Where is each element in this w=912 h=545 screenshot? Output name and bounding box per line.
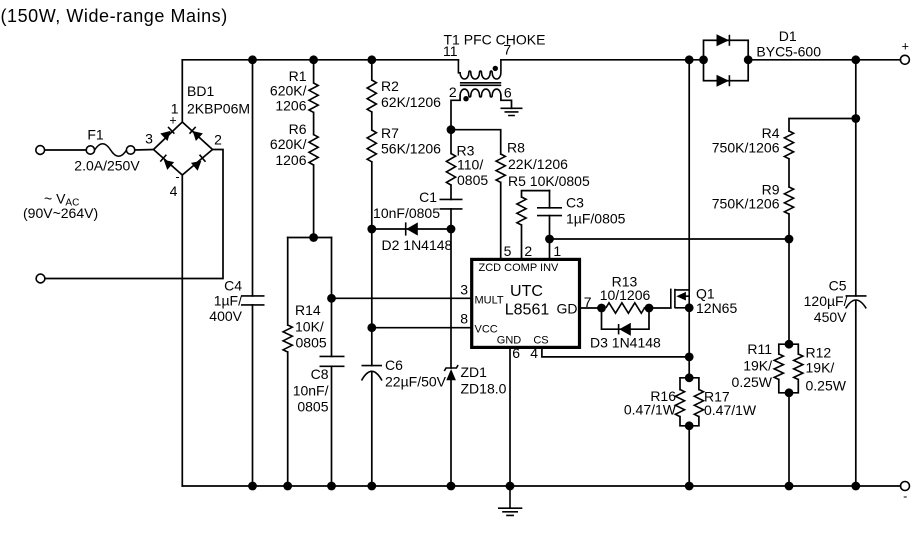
transformer T1 PFC choke	[451, 60, 512, 130]
wire C8 branch upper	[331, 238, 333, 357]
svg-text:T1 PFC CHOKE: T1 PFC CHOKE	[444, 32, 546, 48]
svg-text:0805: 0805	[296, 335, 327, 351]
svg-text:120µF/: 120µF/	[804, 293, 848, 309]
resistor R11	[774, 344, 789, 393]
svg-text:0805: 0805	[297, 399, 328, 415]
svg-text:1206: 1206	[275, 152, 306, 168]
junction dot CS tee	[685, 353, 694, 362]
wire lower AC input to bridge pin 2	[45, 150, 223, 279]
svg-text:R8: R8	[507, 140, 525, 156]
junction dot R11R12 bottom	[785, 388, 794, 397]
op-amp U1 UTC L8561 box	[472, 259, 580, 347]
svg-text:R11: R11	[747, 341, 772, 357]
svg-text:620K/: 620K/	[270, 136, 307, 152]
resistor R3	[446, 154, 455, 186]
svg-text:110/: 110/	[457, 157, 483, 173]
resistor R12	[789, 344, 803, 393]
capacitor C5 electrolytic	[846, 296, 867, 309]
wire R4 to R9	[788, 159, 790, 187]
capacitor C3	[537, 208, 562, 216]
terminal - output	[901, 482, 910, 491]
zener ZD1	[444, 365, 458, 380]
resistor R1	[309, 83, 318, 112]
junction dot R16R17 bottom	[685, 421, 694, 430]
wire INV feedback line	[550, 238, 790, 240]
svg-text:D1: D1	[779, 28, 797, 44]
terminal AC input lower	[36, 274, 45, 283]
svg-text:1206: 1206	[275, 98, 306, 114]
wire C6 bottom	[371, 372, 373, 487]
wire C1 to D2 node	[450, 209, 452, 229]
svg-text:R12: R12	[806, 345, 832, 361]
svg-text:C6: C6	[385, 357, 403, 373]
svg-text:10nF/: 10nF/	[293, 383, 329, 399]
wire R8 to ZCD pin5	[500, 182, 502, 258]
svg-text:R7: R7	[381, 125, 399, 141]
svg-text:C8: C8	[311, 366, 329, 382]
svg-text:-: -	[903, 490, 907, 504]
svg-text:-: -	[175, 170, 179, 184]
junction dot R13 right	[645, 304, 654, 313]
wire C3 to INV node	[549, 216, 551, 239]
junction dot bus C6	[367, 482, 376, 491]
junction dot MULT tee	[327, 294, 336, 303]
svg-text:62K/1206: 62K/1206	[381, 94, 441, 110]
resistor R14	[283, 325, 292, 352]
svg-text:F1: F1	[87, 127, 104, 143]
svg-text:+: +	[169, 114, 176, 128]
diode D2 1N4148	[372, 222, 451, 235]
svg-text:2.0A/250V: 2.0A/250V	[74, 158, 140, 174]
wire Q1 source down	[688, 308, 690, 378]
svg-text:+: +	[902, 40, 909, 54]
svg-text:2: 2	[524, 243, 532, 259]
svg-text:BD1: BD1	[187, 83, 214, 99]
wire C8 bottom	[331, 366, 333, 486]
wire upper AC input to fuse	[45, 149, 86, 151]
svg-text:ZD18.0: ZD18.0	[461, 381, 507, 397]
svg-text:19K/: 19K/	[743, 358, 772, 374]
transistor Q1 12N65	[671, 289, 689, 309]
junction dot R13 left	[597, 304, 606, 313]
wire R4 stub	[789, 119, 856, 132]
diode D3 1N4148	[602, 308, 650, 336]
wire fuse to bridge	[135, 149, 154, 152]
wire T1 node to R8	[451, 130, 501, 154]
svg-text:750K/1206: 750K/1206	[712, 139, 780, 155]
capacitor C4	[241, 296, 265, 305]
wire R2 top	[371, 60, 373, 80]
svg-text:620K/: 620K/	[270, 83, 307, 99]
wire tee R14/C8 branch	[288, 237, 332, 239]
svg-text:10nF/0805: 10nF/0805	[373, 205, 440, 221]
svg-text:MULT: MULT	[475, 295, 504, 307]
svg-text:56K/1206: 56K/1206	[381, 141, 441, 157]
resistor R7	[367, 130, 376, 162]
wire C3 top	[549, 191, 551, 208]
ground main	[498, 486, 522, 515]
svg-text:C4: C4	[224, 278, 242, 294]
resistor R17	[689, 378, 703, 426]
junction dot tee x313	[309, 233, 318, 242]
junction dot bus R11R12	[785, 482, 794, 491]
fuse F1	[86, 144, 135, 157]
svg-text:0.25W: 0.25W	[806, 378, 847, 394]
svg-text:R5 10K/0805: R5 10K/0805	[508, 173, 590, 189]
junction dot VCC tee	[367, 323, 376, 332]
svg-text:GD: GD	[557, 301, 578, 317]
terminal AC input upper	[36, 146, 45, 155]
junction dot D2 right	[447, 225, 456, 234]
junction dot T1 pin2 node	[447, 125, 456, 134]
wire R6 bottom to tee	[313, 165, 315, 238]
wire R1 to R6	[313, 112, 315, 134]
junction dot D1 right	[744, 55, 753, 64]
svg-text:0.47/1W: 0.47/1W	[704, 402, 757, 418]
svg-text:D3 1N4148: D3 1N4148	[590, 335, 661, 351]
svg-text:10/1206: 10/1206	[600, 287, 651, 303]
wire T1 pin2 node down to R3	[450, 130, 452, 154]
wire Q1 drain rail	[688, 60, 690, 290]
wire R5 to COMP pin2	[521, 225, 523, 259]
svg-text:3: 3	[460, 282, 468, 298]
junction dot R16R17 top	[685, 373, 694, 382]
svg-text:7: 7	[503, 42, 511, 58]
svg-text:UTC: UTC	[510, 283, 543, 300]
svg-text:5: 5	[504, 243, 512, 259]
wire VCC line	[372, 327, 471, 329]
svg-text:ZCD COMP INV: ZCD COMP INV	[479, 262, 560, 274]
svg-text:1µF/0805: 1µF/0805	[566, 211, 626, 227]
svg-text:12N65: 12N65	[696, 300, 737, 316]
svg-text:C1: C1	[419, 189, 437, 205]
svg-text:450V: 450V	[814, 309, 847, 325]
wire CS pin4	[542, 347, 689, 357]
terminal + output	[900, 55, 909, 64]
svg-text:11: 11	[443, 43, 458, 59]
capacitor C6 electrolytic	[362, 366, 383, 381]
svg-text:400V: 400V	[209, 308, 242, 324]
svg-text:6: 6	[512, 345, 520, 361]
svg-text:0.47/1W: 0.47/1W	[624, 402, 677, 418]
svg-text:BYC5-600: BYC5-600	[756, 43, 821, 59]
resistor R13	[606, 303, 645, 313]
junction dot top bus x313	[309, 55, 318, 64]
junction dot bus R14	[283, 482, 292, 491]
junction dot top bus x371	[367, 55, 376, 64]
junction dot bus C8	[327, 482, 336, 491]
svg-text:ZD1: ZD1	[461, 364, 488, 380]
svg-text:C5: C5	[829, 278, 847, 294]
svg-text:(90V~264V): (90V~264V)	[23, 205, 98, 221]
wire MULT line	[332, 297, 471, 299]
wire R9 bottom to INV node	[788, 214, 790, 344]
diode D1 BYC5-600	[704, 34, 749, 86]
junction dot bus C5	[851, 482, 860, 491]
svg-text:1µF/: 1µF/	[214, 293, 242, 309]
wire R13 right	[645, 307, 671, 309]
junction dot top bus x689 (Q1 drain)	[685, 55, 694, 64]
junction dot R11R12 top	[785, 340, 794, 349]
svg-text:0805: 0805	[457, 172, 488, 188]
wire R7 bottom to D2 node	[371, 162, 373, 229]
svg-text:4: 4	[530, 345, 538, 361]
svg-text:22µF/50V: 22µF/50V	[385, 374, 447, 390]
svg-text:(150W, Wide-range Mains): (150W, Wide-range Mains)	[1, 6, 228, 26]
svg-text:750K/1206: 750K/1206	[712, 195, 780, 211]
svg-text:R6: R6	[289, 121, 307, 137]
svg-text:2KBP06M: 2KBP06M	[187, 101, 250, 117]
wire D2 node down to ZD1	[450, 229, 452, 368]
junction dot bus C4	[248, 482, 257, 491]
wire R1 top	[313, 60, 315, 83]
junction dot right rail top	[851, 55, 860, 64]
wire R7 node down to C6	[371, 229, 373, 366]
svg-text:L8561: L8561	[505, 302, 550, 319]
wire bottom bus	[182, 485, 900, 487]
wire R14 branch top	[287, 238, 289, 326]
junction dot bus GND	[506, 482, 515, 491]
resistor R9	[784, 187, 793, 214]
wire GND pin6 down	[509, 347, 511, 486]
wire R14 bottom	[287, 352, 289, 486]
svg-text:0.25W: 0.25W	[732, 374, 773, 390]
resistor R6	[309, 135, 318, 165]
wire top bus right (T1 pin7 to D1 and + terminal)	[501, 59, 901, 61]
svg-text:19K/: 19K/	[806, 360, 835, 376]
resistor R5	[517, 197, 526, 225]
svg-text:3: 3	[145, 131, 153, 147]
svg-text:10K/: 10K/	[295, 318, 324, 334]
junction dot D1 left	[699, 55, 708, 64]
resistor R8	[496, 154, 505, 182]
svg-text:VCC: VCC	[475, 324, 498, 336]
svg-text:1: 1	[553, 243, 561, 259]
svg-text:2: 2	[214, 132, 222, 148]
wire R16R17 to bus	[688, 426, 690, 486]
wire right rail x855	[855, 60, 857, 486]
junction dot Q1 source	[685, 303, 694, 312]
wire R2 to R7	[371, 112, 373, 130]
junction dot bus ZD1	[447, 482, 456, 491]
resistor R4	[784, 131, 793, 159]
svg-text:2: 2	[449, 84, 457, 100]
svg-text:R14: R14	[295, 302, 321, 318]
junction dot bus R16R17	[685, 482, 694, 491]
junction dot top bus x252	[248, 55, 257, 64]
wire bridge pin1 to top bus	[181, 60, 183, 122]
capacitor C1	[440, 199, 463, 209]
wire INV pin1	[549, 239, 551, 259]
svg-text:6: 6	[504, 85, 512, 101]
junction dot divider INV	[785, 235, 794, 244]
wire ZD1 bottom	[450, 380, 452, 486]
junction dot D2 left	[367, 225, 376, 234]
resistor R16	[675, 378, 689, 426]
svg-text:4: 4	[170, 183, 178, 199]
svg-text:D2 1N4148: D2 1N4148	[382, 237, 453, 253]
junction dot R4 stub	[851, 114, 860, 123]
wire R11R12 to bus	[788, 393, 790, 486]
svg-text:C3: C3	[566, 195, 584, 211]
wire R5 top link	[522, 191, 550, 197]
junction dot INV node	[545, 235, 554, 244]
wire R3 to C1	[450, 185, 452, 199]
capacitor C8	[320, 356, 345, 366]
resistor R2	[367, 80, 376, 112]
wire GD pin7	[580, 307, 602, 309]
svg-text:8: 8	[460, 311, 468, 327]
bridge rectifier BD1	[154, 122, 213, 175]
ground T1 pin6	[501, 108, 523, 115]
svg-text:22K/1206: 22K/1206	[508, 156, 568, 172]
wire bridge pin4 down to bottom bus	[181, 175, 183, 486]
wire top bus left (BD1 to T1 pin11)	[182, 59, 458, 61]
wire left rail x252	[252, 60, 254, 486]
svg-text:R2: R2	[381, 78, 399, 94]
